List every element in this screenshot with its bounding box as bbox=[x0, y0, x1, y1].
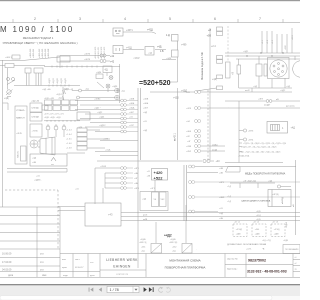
toolbar top border bbox=[0, 284, 300, 285]
svg-text:+4Д4: +4Д4 bbox=[96, 72, 102, 74]
first page button bbox=[89, 288, 94, 292]
svg-text:+4Д5 1: +4Д5 1 bbox=[63, 89, 70, 91]
wire rows to plug X12 bbox=[75, 101, 121, 132]
svg-text:+7Д25.+7Д.+7Д42.+7Д.+7Д25.+7Д.: +7Д25.+7Д.+7Д42.+7Д.+7Д25.+7Д.+7Д25.+7Д4 bbox=[243, 143, 287, 145]
svg-text:+7Д5 .+7Д7.+7Д.+7Д5.+7Д7.+7Д5.: +7Д5 .+7Д7.+7Д.+7Д5.+7Д7.+7Д5.+7Д.+7Д25 bbox=[239, 151, 281, 153]
svg-text:LIEBHERR WERK: LIEBHERR WERK bbox=[106, 258, 138, 262]
svg-text:вв4Д7: вв4Д7 bbox=[264, 104, 271, 106]
svg-text:+40В: +40В bbox=[143, 99, 149, 101]
next page button bbox=[144, 287, 147, 292]
svg-text:подп: подп bbox=[63, 275, 69, 277]
net labels column C (rotated, centre) bbox=[95, 46, 106, 59]
title block small cells text bbox=[62, 259, 95, 277]
feeder drop wires with labels bbox=[262, 28, 292, 53]
svg-text:+4Д +4*Д: +4Д +4*Д bbox=[262, 240, 271, 242]
svg-text:+4ДВ: +4ДВ bbox=[274, 234, 280, 236]
svg-text:+7Д25.+В7.+7Д.+7Д.+7Д42.+7Д.+7: +7Д25.+В7.+7Д.+7Д.+7Д42.+7Д.+7Д25 bbox=[241, 146, 277, 148]
crane unit box bbox=[268, 190, 291, 207]
aux contacts K4 bbox=[172, 35, 179, 58]
svg-text:ПОВОРОТНАЯ ПЛАТФОРМА: ПОВОРОТНАЯ ПЛАТФОРМА bbox=[165, 266, 206, 270]
relay K1 bbox=[113, 28, 123, 36]
svg-text:дата: дата bbox=[90, 275, 95, 277]
svg-text:+400.411: +400.411 bbox=[33, 48, 35, 58]
wire riser bbox=[162, 57, 178, 82]
svg-text:+40В: +40В bbox=[129, 99, 135, 101]
svg-text:+4Б1: +4Б1 bbox=[141, 247, 145, 249]
feeder wire +478 bbox=[225, 100, 300, 103]
svg-text:дата: дата bbox=[8, 274, 14, 277]
relay K2 bbox=[113, 46, 123, 54]
svg-text:1 / 78: 1 / 78 bbox=[110, 288, 119, 292]
svg-text:+4Г9: +4Г9 bbox=[219, 182, 225, 184]
revision entries bbox=[2, 253, 47, 278]
labels for X14 bbox=[186, 92, 192, 153]
svg-text:982375002: 982375002 bbox=[248, 259, 266, 263]
svg-text:+438: +438 bbox=[186, 146, 192, 148]
bus L1 bbox=[225, 53, 300, 59]
svg-text:ПО ЖЕЛАНИЮ: ПО ЖЕЛАНИЮ bbox=[285, 248, 299, 251]
toolbar body bbox=[0, 285, 300, 296]
svg-text:+1.6.4: +1.6.4 bbox=[66, 134, 73, 136]
svg-text:+4ДД2: +4ДД2 bbox=[133, 58, 140, 60]
svg-text:+4Д8: +4Д8 bbox=[166, 58, 172, 60]
connector plug XS1 bbox=[268, 58, 290, 79]
svg-text:+42: +42 bbox=[110, 61, 115, 64]
riser wire bbox=[177, 88, 179, 160]
svg-text:+400.410.430: +400.410.430 bbox=[95, 46, 97, 59]
terminal stack X13 bbox=[77, 128, 110, 150]
svg-text:+4Г2Д: +4Г2Д bbox=[272, 194, 279, 196]
svg-text:+1.6.5: +1.6.5 bbox=[66, 139, 73, 141]
svg-text:+4ДВ2: +4ДВ2 bbox=[286, 221, 288, 228]
svg-text:+4Д: +4Д bbox=[253, 86, 257, 88]
page number box bbox=[107, 286, 139, 292]
svg-text:+4Д: +4Д bbox=[121, 90, 125, 92]
stack labels bbox=[66, 130, 73, 150]
cable tree trunk bbox=[225, 101, 283, 163]
svg-text:+1.6.3: +1.6.3 bbox=[66, 130, 73, 132]
svg-text:УПРАВЛЯЮЩИ СВЕРХУ " ( ПО ЖЕЛАН: УПРАВЛЯЮЩИ СВЕРХУ " ( ПО ЖЕЛАНИЮ ЗАКАЗЧИ… bbox=[2, 41, 77, 45]
top window edge bbox=[0, 0, 300, 1]
svg-text:ЧПУ/Д8: ЧПУ/Д8 bbox=[32, 117, 40, 119]
svg-text:+1Д: +1Д bbox=[227, 201, 231, 203]
switch S1 bbox=[0, 55, 60, 61]
svg-text:+43: +43 bbox=[108, 213, 113, 217]
svg-text:+41Д: +41Д bbox=[147, 28, 153, 31]
undo view button bbox=[159, 287, 164, 292]
terminal circle rows X14 bbox=[195, 91, 201, 153]
svg-text:+4Д: +4Д bbox=[148, 52, 152, 54]
junction dots bbox=[246, 52, 283, 56]
connector plug XS2 (edge) bbox=[293, 56, 310, 77]
svg-text:+4В9: +4В9 bbox=[219, 197, 225, 199]
svg-text:+423: +423 bbox=[186, 108, 192, 110]
svg-text:EHINGEN: EHINGEN bbox=[113, 265, 131, 269]
lamp H1 bbox=[7, 78, 16, 85]
svg-text:1.Б: 1.Б bbox=[160, 50, 164, 53]
svg-text:+41Д: +41Д bbox=[105, 150, 111, 152]
indicator circles row bbox=[63, 88, 120, 100]
svg-text:+93: +93 bbox=[207, 34, 212, 38]
svg-text:+4Б: +4Б bbox=[219, 218, 223, 220]
grid of aux modules bbox=[45, 100, 78, 110]
PLC box +43 bbox=[85, 203, 121, 226]
svg-text:+4Д: +4Д bbox=[85, 89, 89, 91]
lamp H4 bbox=[54, 125, 58, 138]
dashed cabinet boundary bbox=[5, 190, 58, 250]
svg-text:+4Д2: +4Д2 bbox=[97, 112, 103, 114]
svg-text:+4Д: +4Д bbox=[212, 78, 217, 81]
bottom connector W1 bbox=[151, 244, 192, 254]
svg-text:+452: +452 bbox=[186, 151, 192, 153]
svg-text:нет: нет bbox=[51, 164, 54, 166]
svg-text:+4Г+4Д2+4Д: +4Г+4Д2+4Д bbox=[243, 181, 256, 183]
svg-text:+464: +464 bbox=[186, 131, 192, 133]
wire from bus bbox=[95, 168, 121, 204]
svg-text:+В74: +В74 bbox=[248, 140, 254, 142]
connector X11 bbox=[100, 54, 110, 63]
svg-text:+40: +40 bbox=[216, 160, 221, 163]
svg-text:+4Д4Б: +4Д4Б bbox=[140, 239, 146, 241]
svg-text:+4070: +4070 bbox=[84, 54, 91, 56]
svg-text:+4Г х1: +4Г х1 bbox=[234, 222, 241, 224]
svg-text:+4.Г1: +4.Г1 bbox=[246, 249, 252, 251]
svg-text:78: 78 bbox=[295, 269, 297, 271]
svg-text:+4Д: +4Д bbox=[32, 158, 36, 160]
junction box A4 bbox=[30, 154, 67, 166]
long wires to the right bbox=[150, 92, 300, 151]
svg-text:+4Д45: +4Д45 bbox=[65, 77, 67, 84]
svg-text:+4Д5 1: +4Д5 1 bbox=[56, 94, 63, 96]
svg-text:доп.жила: доп.жила bbox=[286, 106, 296, 108]
fuse box F4 bbox=[27, 68, 44, 86]
svg-text:НАВЕСН: НАВЕСН bbox=[16, 117, 25, 120]
svg-text:+4Д05: +4Д05 bbox=[49, 77, 51, 84]
motor M1 bbox=[96, 74, 113, 80]
svg-text:+499: +499 bbox=[181, 44, 187, 47]
svg-text:+2.4: +2.4 bbox=[211, 45, 216, 48]
svg-text:Механизм подачи 1 Мп: Механизм подачи 1 Мп bbox=[200, 52, 204, 80]
svg-text:+41Д: +41Д bbox=[256, 215, 261, 217]
svg-text:МОНТАЖНАЯ СХЕМА: МОНТАЖНАЯ СХЕМА bbox=[169, 259, 200, 263]
relay box +4П bbox=[103, 66, 112, 76]
svg-text:+41Д: +41Д bbox=[126, 47, 132, 50]
svg-text:M 1090 / 1100: M 1090 / 1100 bbox=[0, 25, 74, 34]
svg-text:Чертёж №:: Чертёж №: bbox=[227, 258, 238, 261]
svg-text:+4В12 Д1: +4В12 Д1 bbox=[169, 242, 177, 244]
svg-text:+В73: +В73 bbox=[248, 131, 254, 133]
drop wires to bottom connector bbox=[138, 205, 186, 268]
switch contact S2 bbox=[7, 80, 15, 85]
svg-text:+4Б: +4Б bbox=[134, 183, 138, 185]
svg-text:+400.412: +400.412 bbox=[39, 48, 41, 58]
svg-text:+4Д35: +4Д35 bbox=[61, 77, 63, 84]
svg-text:вВ42Д: вВ42Д bbox=[282, 197, 284, 204]
svg-text:ДОРАБОТАНО. МОНТАЖНАЯ СХЕМА: ДОРАБОТАНО. МОНТАЖНАЯ СХЕМА bbox=[227, 243, 267, 246]
svg-text:+4Д2: +4Д2 bbox=[164, 234, 172, 238]
labels bbox=[134, 168, 140, 190]
svg-text:Идентиф.:: Идентиф.: bbox=[227, 268, 238, 271]
option labels bbox=[234, 222, 289, 243]
svg-text:+1.6.6: +1.6.6 bbox=[66, 143, 73, 145]
svg-text:+4Д8 +4Д5: +4Д8 +4Д5 bbox=[44, 98, 55, 100]
svg-text:+4ДВ: +4ДВ bbox=[236, 234, 242, 236]
wires to right margin bbox=[187, 167, 296, 173]
breaker F1 bbox=[237, 59, 241, 88]
svg-text:+4Г х2: +4Г х2 bbox=[253, 222, 260, 224]
svg-text:+4Д: +4Д bbox=[157, 46, 162, 49]
svg-text:+4ДВ: +4ДВ bbox=[255, 234, 261, 236]
svg-text:+4Д15: +4Д15 bbox=[53, 77, 55, 84]
platform outline bbox=[226, 167, 241, 173]
svg-text:+4Д: +4Д bbox=[286, 86, 290, 88]
svg-text:+4Д2: +4Д2 bbox=[280, 90, 286, 92]
dashed option boxes bbox=[233, 224, 285, 237]
svg-text:+4075: +4075 bbox=[84, 59, 91, 61]
svg-text:+1Д: +1Д bbox=[227, 196, 231, 198]
svg-text:имя: имя bbox=[42, 274, 47, 277]
svg-text:+4Г1: +4Г1 bbox=[134, 168, 140, 170]
svg-text:+4ДВ: +4ДВ bbox=[283, 240, 289, 242]
transformer TV45 bbox=[30, 124, 42, 137]
svg-text:вв.42 1: вв.42 1 bbox=[174, 132, 177, 141]
terminal strip X2 bbox=[0, 64, 45, 68]
option note box bbox=[283, 245, 300, 254]
prev page button bbox=[99, 288, 102, 292]
plug contact pairs X12 bbox=[121, 99, 138, 133]
svg-text:04.03.09: 04.03.09 bbox=[2, 269, 12, 272]
svg-text:+4Д +4Б: +4Д +4Б bbox=[42, 89, 51, 91]
svg-text:+40Б: +40Б bbox=[143, 103, 149, 105]
svg-text:+40Д: +40Д bbox=[129, 108, 135, 110]
dashed module boundary top-right bbox=[227, 26, 229, 62]
svg-text:+4Д4: +4Д4 bbox=[99, 117, 105, 119]
right margin wire names bbox=[219, 168, 225, 220]
svg-text:+4Б: +4Б bbox=[134, 173, 138, 175]
svg-text:=520+520: =520+520 bbox=[139, 80, 171, 87]
wires to center bus bbox=[95, 141, 138, 156]
CNC module A3a bbox=[30, 103, 48, 121]
svg-text:17.04.09: 17.04.09 bbox=[2, 261, 12, 264]
terminal bus X7 bbox=[44, 120, 80, 122]
svg-text:+522: +522 bbox=[154, 175, 164, 180]
svg-text:+478: +478 bbox=[103, 139, 109, 141]
svg-text:4Д: 4Д bbox=[105, 69, 108, 72]
ruler zone numbers bbox=[34, 16, 262, 21]
lamp H3 bbox=[46, 125, 50, 138]
svg-text:САМОХОДНАЯ УСТАНОВКА: САМОХОДНАЯ УСТАНОВКА bbox=[241, 200, 271, 203]
breaker F2 bbox=[256, 56, 267, 88]
lamp H2 bbox=[12, 78, 15, 81]
bottom rail with plug bbox=[97, 159, 214, 162]
svg-text:+1Д: +1Д bbox=[227, 186, 231, 188]
wire row 1 bbox=[60, 56, 100, 69]
svg-text:+4Г1: +4Г1 bbox=[150, 188, 156, 190]
clamp C2 bbox=[243, 138, 246, 141]
right edge cells text bbox=[295, 257, 297, 271]
svg-text:+4Д36 .: +4Д36 . bbox=[34, 180, 42, 182]
svg-text:+4Б2: +4Б2 bbox=[172, 247, 176, 249]
svg-text:вв42: вв42 bbox=[245, 90, 251, 92]
terminal circles right column bbox=[189, 165, 301, 213]
right bus bbox=[184, 165, 187, 221]
svg-text:НАСОС: НАСОС bbox=[17, 150, 20, 158]
svg-text:МЕХАНИЗМ ПОДАЧИ 1: МЕХАНИЗМ ПОДАЧИ 1 bbox=[23, 36, 54, 40]
left frame riser bbox=[2, 60, 4, 207]
svg-text:+4В: +4В bbox=[219, 168, 223, 170]
motor M2 bbox=[97, 82, 110, 92]
svg-text:л1: л1 bbox=[295, 257, 297, 259]
wires below connectors bbox=[239, 78, 292, 92]
svg-text:+400.411.431: +400.411.431 bbox=[98, 46, 100, 59]
svg-text:+4Д: +4Д bbox=[219, 213, 223, 215]
svg-text:ЧПУ/Д5: ЧПУ/Д5 bbox=[32, 108, 40, 110]
last page button bbox=[149, 287, 154, 292]
clamp C1 bbox=[243, 129, 246, 132]
contactor K3 bbox=[145, 47, 154, 56]
wire names right of plug bbox=[129, 99, 149, 132]
wire row with tags bbox=[230, 183, 275, 188]
svg-text:+4Д: +4Д bbox=[143, 112, 147, 114]
svg-text:+4Д: +4Д bbox=[4, 97, 9, 100]
left tick marks bbox=[227, 186, 231, 203]
svg-text:3132-932 - 48-08-001-003: 3132-932 - 48-08-001-003 bbox=[247, 270, 287, 274]
svg-text:л2: л2 bbox=[295, 263, 297, 265]
wire from K1 bbox=[123, 32, 156, 34]
svg-text:+В7Д4+В7Д: +В7Д4+В7Д bbox=[238, 156, 250, 158]
terminal circle rows upper bbox=[121, 167, 133, 190]
svg-text:изм: изм bbox=[62, 259, 66, 261]
svg-text:02.04.17: 02.04.17 bbox=[75, 267, 84, 269]
drain valve symbol bbox=[6, 68, 13, 97]
control cabinet A2 (tall) bbox=[15, 106, 27, 164]
net labels column group A (rotated) bbox=[30, 48, 50, 58]
svg-text:+4В: +4В bbox=[32, 162, 36, 164]
output wires bbox=[121, 213, 300, 221]
svg-text:+400.415: +400.415 bbox=[42, 48, 44, 58]
svg-text:+4Д1: +4Д1 bbox=[243, 51, 249, 53]
svg-text:+1.6.8: +1.6.8 bbox=[66, 148, 73, 150]
svg-text:+4Г8: +4Г8 bbox=[134, 188, 140, 190]
contact box Y42 bbox=[160, 192, 167, 207]
redo view button bbox=[166, 287, 171, 292]
heater module box E2 bbox=[267, 122, 288, 134]
svg-text:+400.410: +400.410 bbox=[30, 48, 32, 58]
svg-text:+405 1: +405 1 bbox=[5, 57, 13, 59]
svg-text:+41Г: +41Г bbox=[129, 125, 135, 127]
main vertical bus center bbox=[138, 88, 141, 214]
svg-text:+4Г4Д: +4Г4Д bbox=[274, 229, 280, 231]
svg-text:16.06.09: 16.06.09 bbox=[2, 253, 12, 256]
svg-text:+4В12 Д: +4В12 Д bbox=[139, 242, 147, 244]
svg-text:+400.418: +400.418 bbox=[48, 48, 50, 58]
terminal circle bbox=[277, 185, 291, 188]
svg-text:+4Г8: +4Г8 bbox=[258, 98, 264, 100]
svg-text:1.Д: 1.Д bbox=[166, 34, 170, 37]
svg-text:+4Д8. +4Д5. +4Д3: +4Д8. +4Д5. +4Д3 bbox=[44, 117, 61, 119]
svg-text:+4Д25: +4Д25 bbox=[57, 77, 59, 84]
svg-text:лист: лист bbox=[75, 259, 80, 261]
svg-text:COP'OP. 23: COP'OP. 23 bbox=[116, 274, 128, 276]
status strip bbox=[0, 296, 300, 300]
wire stub bbox=[3, 103, 9, 110]
wire K2 to K3 bbox=[123, 49, 166, 51]
svg-text:+400.416: +400.416 bbox=[45, 48, 47, 58]
riser wire bbox=[119, 64, 121, 103]
lamp H5 bbox=[62, 125, 66, 138]
control box A5 bbox=[77, 112, 90, 120]
svg-text:+В: +В bbox=[232, 72, 235, 75]
svg-text:+4Д4Б: +4Д4Б bbox=[170, 239, 176, 241]
svg-text:УПРАВЛ+: УПРАВЛ+ bbox=[16, 109, 26, 112]
wire across to bus bbox=[7, 153, 85, 172]
svg-text:+4Д1 *: +4Д1 * bbox=[94, 108, 101, 110]
svg-text:+4Д/+4Б: +4Д/+4Б bbox=[31, 101, 40, 103]
svg-text:+4071: +4071 bbox=[126, 29, 133, 32]
svg-text:+407: +407 bbox=[143, 108, 149, 110]
rail cable names (rotated) bbox=[49, 77, 67, 84]
lower rail X4 bbox=[14, 85, 80, 101]
terminal rail X6 bbox=[226, 62, 231, 78]
svg-text:+4Д5: +4Д5 bbox=[112, 86, 118, 88]
svg-text:+28.1: +28.1 bbox=[292, 34, 294, 40]
svg-text:+40В4: +40В4 bbox=[94, 99, 101, 101]
svg-text:+478 +475 +473 +471: +478 +475 +473 +471 bbox=[44, 114, 65, 116]
svg-text:+4Д5: +4Д5 bbox=[173, 97, 179, 100]
input wires bbox=[58, 188, 103, 211]
svg-text:м4В: м4В bbox=[143, 219, 148, 221]
svg-text:+40Г: +40Г bbox=[129, 112, 135, 114]
svg-text:+4Г х3: +4Г х3 bbox=[272, 222, 279, 224]
main riser bbox=[209, 28, 211, 160]
svg-text:+TV45: +TV45 bbox=[32, 131, 39, 133]
right page edge riser bbox=[295, 160, 297, 235]
svg-text:+4Г/4Д: +4Г/4Д bbox=[236, 229, 243, 231]
svg-text:+41: +41 bbox=[110, 55, 115, 58]
dashed boundary bbox=[207, 90, 209, 161]
svg-text:МЕД/х ПОВОРОТНАЯ ПЛАТФОРМА: МЕД/х ПОВОРОТНАЯ ПЛАТФОРМА bbox=[245, 173, 286, 176]
svg-text:пров: пров bbox=[62, 267, 68, 269]
svg-text:+420: +420 bbox=[154, 170, 164, 175]
svg-text:+4Б: +4Б bbox=[219, 173, 223, 175]
svg-text:+4Д: +4Д bbox=[142, 199, 146, 201]
svg-text:+40Б: +40Б bbox=[129, 103, 135, 105]
svg-text:+4Г45: +4Г45 bbox=[16, 133, 23, 135]
svg-text:+4Д: +4Д bbox=[268, 181, 272, 183]
contact box Y4 bbox=[152, 192, 159, 207]
svg-text:+4Д: +4Д bbox=[291, 127, 296, 130]
pump unit M3 bbox=[30, 137, 55, 155]
heater box E1 bbox=[57, 56, 70, 62]
fuse box F3 bbox=[25, 68, 31, 73]
svg-text:+4Д: +4Д bbox=[143, 130, 147, 132]
drawing frame top ruler bbox=[0, 19, 300, 23]
svg-text:+4Д52: +4Д52 bbox=[99, 125, 106, 127]
valve driver module bbox=[140, 180, 168, 211]
power module with bold labels bbox=[152, 169, 168, 181]
svg-text:м4Дж: м4Дж bbox=[212, 144, 218, 146]
svg-text:вв4Д: вв4Д bbox=[212, 149, 218, 151]
terminal bus X3 with ticks bbox=[44, 66, 120, 68]
feeder wire names (rotated) bbox=[262, 34, 294, 50]
terminal strip X5 bbox=[196, 27, 223, 91]
